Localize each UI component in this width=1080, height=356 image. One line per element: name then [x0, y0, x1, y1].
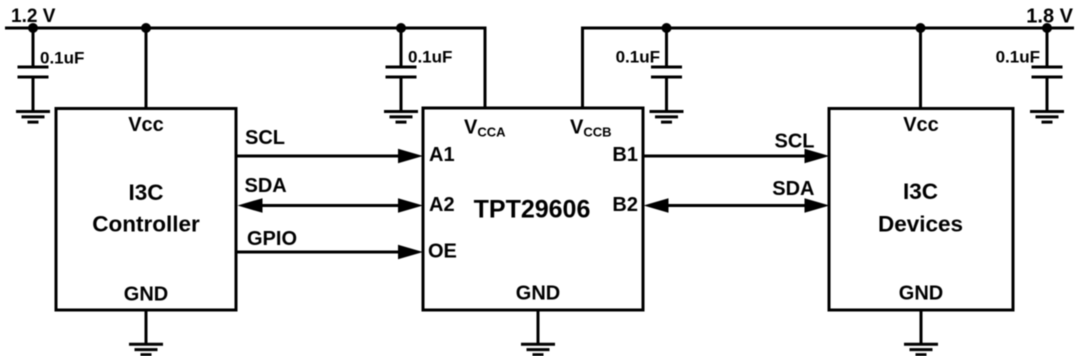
svg-text:GND: GND	[516, 283, 560, 305]
svg-text:GPIO: GPIO	[247, 228, 297, 250]
ground under TPT29606	[521, 344, 555, 354]
svg-text:GND: GND	[124, 284, 168, 306]
svg-text:Devices: Devices	[878, 212, 963, 237]
wire GND stem TPT29606	[537, 310, 540, 344]
box U2 TPT29606	[423, 108, 643, 310]
wire GPIO controller to OE	[236, 245, 423, 260]
svg-text:SDA: SDA	[245, 175, 287, 197]
ground under C1	[16, 112, 50, 123]
svg-text:I3C: I3C	[903, 179, 938, 204]
capacitor C2 0.1uF	[386, 67, 417, 112]
wire SDA B2 to devices (bidirectional)	[644, 198, 830, 213]
wire cap C3 drop	[665, 28, 668, 67]
wire cap C2 drop	[400, 28, 403, 67]
svg-text:OE: OE	[428, 241, 457, 263]
wire GND stem devices	[920, 310, 923, 344]
svg-text:0.1uF: 0.1uF	[996, 48, 1040, 67]
svg-text:Vcc: Vcc	[903, 114, 939, 136]
svg-text:A1: A1	[429, 144, 455, 166]
junction dot rail x=401	[396, 23, 406, 33]
junction dot rail x=1047	[1042, 23, 1052, 33]
svg-text:1.8 V: 1.8 V	[1026, 6, 1073, 28]
wire Vcc drop to I3C Controller	[145, 28, 148, 109]
svg-text:TPT29606: TPT29606	[474, 196, 591, 224]
svg-text:Controller: Controller	[92, 211, 200, 236]
capacitor C1 0.1uF	[18, 67, 49, 112]
svg-text:B1: B1	[612, 144, 638, 166]
svg-text:0.1uF: 0.1uF	[616, 48, 660, 67]
wire right 1.8V power rail	[583, 28, 1075, 109]
junction dot rail x=146	[141, 23, 151, 33]
junction dot rail x=666.5	[662, 23, 672, 33]
svg-text:SCL: SCL	[775, 131, 815, 153]
wire SCL B1 to devices	[643, 149, 830, 164]
ground under C4	[1030, 112, 1064, 123]
svg-text:0.1uF: 0.1uF	[40, 49, 84, 68]
wire SDA controller to A2 (bidirectional)	[238, 198, 424, 213]
svg-text:Vcc: Vcc	[128, 114, 164, 136]
wire SCL controller to A1	[236, 149, 423, 164]
box U3 I3C Devices	[829, 109, 1013, 311]
ground under C3	[650, 112, 684, 123]
svg-text:SDA: SDA	[772, 178, 814, 200]
wire left 1.2V power rail	[5, 28, 485, 109]
ground under C2	[384, 112, 418, 123]
svg-text:0.1uF: 0.1uF	[408, 48, 452, 67]
junction dot rail x=33	[28, 23, 38, 33]
svg-text:SCL: SCL	[245, 127, 285, 149]
svg-text:GND: GND	[899, 283, 943, 305]
ground under controller	[129, 344, 163, 354]
box U1 I3C Controller	[56, 109, 236, 311]
capacitor C4 0.1uF	[1032, 67, 1063, 112]
capacitor C3 0.1uF	[651, 67, 682, 112]
svg-text:I3C: I3C	[128, 180, 163, 205]
wire GND stem controller	[145, 310, 148, 344]
wire cap C4 drop	[1046, 28, 1049, 67]
junction dot rail x=920.5	[916, 23, 926, 33]
svg-text:A2: A2	[429, 194, 455, 216]
svg-text:1.2 V: 1.2 V	[11, 6, 56, 27]
svg-text:B2: B2	[612, 194, 638, 216]
wire cap C1 drop	[32, 28, 35, 67]
ground under devices	[904, 344, 938, 354]
wire Vcc drop to I3C Devices	[919, 28, 922, 109]
